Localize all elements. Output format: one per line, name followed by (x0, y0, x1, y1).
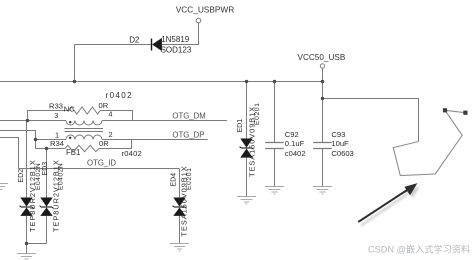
ground under C93 (313, 187, 332, 195)
wire D2 cathode to VCC_USBPWR (162, 23, 199, 45)
junction rail/D2 branch (73, 80, 76, 83)
wire ED3 branch lower (46, 216, 48, 244)
wire stub net to annotation (323, 99, 419, 142)
svg-text:C92: C92 (285, 130, 299, 139)
wire R34 bypass loop right (99, 140, 132, 149)
svg-text:CSDN @嵌入式学习资料: CSDN @嵌入式学习资料 (368, 243, 470, 254)
wire OTG_DM row left (0, 120, 66, 122)
power terminal VCC_USBPWR (196, 18, 201, 23)
svg-text:R33: R33 (49, 101, 63, 110)
wire OTG_ID entry jog (0, 138, 19, 169)
wire C93 branch lower (322, 149, 324, 187)
resistor R34 (65, 145, 99, 151)
svg-text:E0402N: E0402N (58, 163, 65, 190)
annotation arrow (358, 183, 420, 225)
wire R33 bypass loop left (28, 111, 70, 121)
svg-text:2: 2 (109, 130, 113, 139)
wire D2 branch vertical (74, 45, 76, 82)
svg-text:3: 3 (54, 111, 58, 120)
svg-text:OTG_ID: OTG_ID (87, 159, 116, 168)
wire ED4 branch upper (179, 169, 181, 198)
wire ED4 branch lower (179, 216, 181, 244)
svg-text:OTG_DP: OTG_DP (172, 130, 204, 139)
common-mode choke FB1 (65, 121, 104, 140)
wire ED3 branch upper (46, 149, 48, 198)
ground under ED4 (170, 244, 189, 252)
TVS diode ED1 (237, 102, 261, 177)
FB1 polarity dot pin 3 (69, 121, 71, 123)
wire OTG_DM row right (102, 120, 227, 122)
junction rail/VCC50_USB (321, 80, 324, 83)
junction R34 lead/ED3 (45, 147, 48, 150)
wire C92 branch upper (274, 82, 276, 143)
TVS diode ED3 (40, 159, 65, 232)
svg-text:FB1: FB1 (66, 148, 80, 157)
TVS diode ED4 (171, 165, 193, 236)
svg-text:c0402: c0402 (285, 149, 306, 158)
svg-text:VCC_USBPWR: VCC_USBPWR (176, 5, 235, 15)
wire ED1 branch upper (246, 82, 248, 139)
svg-text:E0201: E0201 (254, 102, 261, 125)
junction OTG_DM/R33/ED2 (26, 119, 29, 122)
wire main VBUS rail (0, 81, 323, 83)
capacitor C92 (265, 130, 305, 158)
annotation freeform highlight shape (393, 110, 462, 175)
svg-text:VCC50_USB: VCC50_USB (298, 53, 346, 62)
svg-text:0.1uF: 0.1uF (285, 139, 305, 148)
ground under ED2/ED3 (17, 254, 36, 260)
ground clipped at left edge (0, 184, 8, 190)
svg-text:0R: 0R (99, 101, 109, 110)
wire R34 bypass loop left (36, 140, 66, 149)
wire D2 anode-side horizontal (75, 44, 152, 46)
svg-text:C93: C93 (331, 130, 345, 139)
svg-text:4: 4 (108, 109, 112, 118)
svg-text:ED1: ED1 (237, 119, 244, 133)
ground under C92 (265, 187, 284, 195)
FB1 polarity dot pin 1 (69, 137, 71, 139)
junction OTG_DP/R34 (34, 138, 37, 141)
diode D2 (129, 35, 192, 55)
ground under ED1 (237, 197, 256, 205)
svg-text:OTG_DM: OTG_DM (172, 112, 205, 121)
wire OTG_DP row left (36, 139, 67, 141)
annotation handle square B (463, 111, 467, 115)
junction VCC50_USB/stub net (321, 97, 324, 100)
TVS diode ED2 (18, 159, 42, 232)
wire ED2 branch lower (26, 216, 28, 244)
power terminal VCC50_USB (320, 64, 324, 68)
svg-text:E0201: E0201 (186, 167, 193, 190)
svg-text:10uF: 10uF (331, 139, 349, 148)
svg-text:C0603: C0603 (331, 149, 353, 158)
junction rail/ED1 (245, 80, 248, 83)
svg-text:NC: NC (64, 105, 75, 114)
annotation handle square A (443, 108, 447, 112)
wire ED1 branch lower (246, 158, 248, 197)
wire VCC50_USB vertical (322, 68, 324, 142)
junction ED2/ED3 ground (25, 242, 28, 245)
annotation handle segment (445, 110, 465, 112)
wire C92 branch lower (274, 149, 276, 187)
svg-text:r0402: r0402 (122, 149, 142, 158)
svg-text:r0402: r0402 (106, 91, 133, 100)
svg-text:ED3: ED3 (42, 162, 49, 176)
svg-text:ED4: ED4 (171, 173, 178, 187)
wire OTG_DP entry jog (0, 131, 36, 140)
wire OTG_ID row (19, 168, 180, 170)
svg-text:ED2: ED2 (18, 169, 25, 183)
wire R33 bypass loop right (100, 111, 133, 121)
junction rail/C92 (273, 80, 276, 83)
svg-text:SOD123: SOD123 (161, 46, 192, 55)
wire OTG_DP row right (102, 139, 208, 141)
svg-text:1N5819: 1N5819 (161, 35, 190, 44)
capacitor C93 (313, 130, 354, 158)
svg-text:D2: D2 (129, 35, 140, 44)
wire ED2 branch upper (26, 121, 28, 198)
svg-text:0R: 0R (99, 139, 109, 148)
wire ED2/ED3 ground link (27, 244, 47, 254)
svg-text:R34: R34 (50, 139, 64, 148)
resistor R33 (69, 107, 100, 114)
